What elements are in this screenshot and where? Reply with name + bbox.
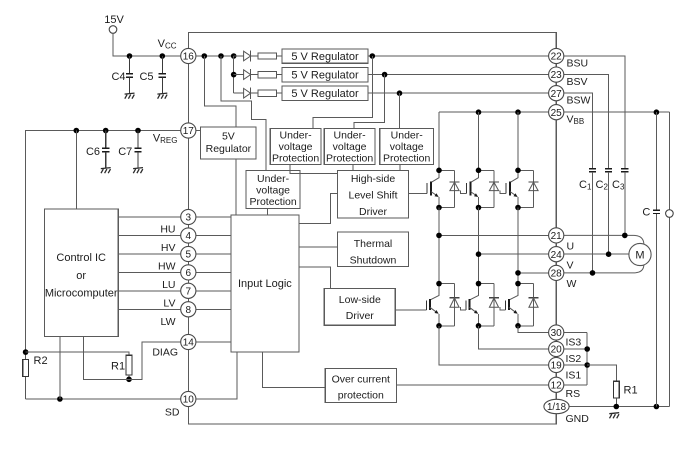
svg-text:V: V: [567, 260, 574, 272]
resistor R1 (sense): [613, 381, 637, 406]
wire pin 7 to Input Logic: [196, 290, 231, 292]
motor M: [629, 243, 651, 265]
pin 7 LV: [181, 283, 196, 298]
svg-text:DIAG: DIAG: [152, 347, 178, 359]
pin 28 W: [549, 265, 564, 280]
wire 5V Regulator to Input Logic: [235, 159, 237, 215]
transistor Q2 high-side V with diode: [467, 168, 499, 211]
svg-text:RS: RS: [566, 388, 581, 400]
svg-text:IS1: IS1: [566, 369, 582, 381]
pin 20 IS2: [549, 341, 564, 356]
wire emitter V to pin 20: [479, 326, 549, 349]
pin 3 HU: [181, 209, 196, 224]
svg-text:C4: C4: [111, 71, 125, 83]
transistor Q4 low-side U with diode: [426, 281, 459, 329]
svg-text:Microcomputer: Microcomputer: [45, 288, 118, 300]
wire U phase to pin 21: [439, 234, 549, 236]
svg-text:22: 22: [551, 52, 563, 63]
wire pin 8 to Input Logic: [196, 308, 231, 310]
5 V Regulator box 2: [282, 68, 368, 82]
wire pin 21 to motor U: [564, 235, 644, 244]
5 V Regulator box 3: [282, 86, 368, 100]
capacitor C2: [596, 169, 613, 255]
wire pin 20 stub: [564, 348, 587, 350]
svg-text:VBB: VBB: [567, 114, 585, 127]
node VBB smoothing cap branch: [654, 109, 660, 115]
pin 1/18 GND: [544, 399, 569, 413]
capacitor C (bus): [642, 112, 660, 406]
svg-text:Control IC: Control IC: [56, 252, 106, 264]
svg-text:14: 14: [183, 338, 195, 349]
wire LU control to pin 6: [118, 271, 181, 273]
wire emitter U to pin 19: [439, 326, 549, 365]
svg-text:Input Logic: Input Logic: [238, 278, 292, 290]
pin 23 BSV: [549, 67, 564, 82]
pin 25 VBB: [549, 105, 564, 120]
svg-text:Thermal: Thermal: [354, 238, 393, 250]
svg-text:IS2: IS2: [566, 353, 582, 365]
wire gate stub Q2: [461, 191, 467, 194]
Thermal Shutdown box: [337, 232, 408, 267]
wire Input Logic to Low-side driver: [299, 267, 330, 289]
node bootstrap row 2 feed: [231, 72, 237, 78]
pin 17 VREG: [181, 123, 196, 138]
svg-text:Protection: Protection: [383, 153, 430, 165]
capacitor C3: [612, 169, 628, 236]
wire pin 24 to motor V: [564, 253, 629, 255]
pin 22 BSU: [549, 48, 564, 63]
wire Input Logic to Thermal Shutdown: [299, 246, 337, 248]
svg-text:Protection: Protection: [272, 153, 319, 165]
svg-text:High-side: High-side: [351, 173, 396, 185]
svg-text:1/18: 1/18: [547, 402, 567, 413]
node IS1 junction: [584, 362, 590, 368]
pin 14 DIAG: [181, 334, 196, 349]
node C4 junction: [127, 53, 133, 59]
wire SD net: R2 bottom to pin 10: [26, 398, 181, 400]
wire pin 6 to Input Logic: [196, 271, 231, 273]
transistor Q5 low-side V with diode: [466, 281, 499, 329]
svg-text:U: U: [567, 241, 575, 253]
ground symbol at sense R1: [609, 413, 619, 419]
wire VREG to R1 pull-up: [26, 352, 129, 355]
node regulator 1 UV branch: [370, 53, 376, 59]
wire Input Logic to High-side driver: [299, 193, 337, 223]
transistor Q1 high-side U with diode: [427, 168, 459, 211]
svg-text:BSU: BSU: [567, 58, 589, 70]
svg-text:Protection: Protection: [249, 196, 296, 208]
pin 5 HW: [181, 246, 196, 261]
pin 8 LW: [181, 302, 196, 317]
wire regulator 3 output to pin 27: [368, 92, 549, 94]
svg-text:C6: C6: [86, 146, 100, 158]
Over current protection box: [325, 368, 396, 402]
svg-text:20: 20: [551, 345, 563, 356]
wire W phase to pin 28: [518, 272, 549, 274]
node under-voltage feed: [218, 53, 224, 59]
resistor R2: [23, 352, 48, 399]
pin 12 RS: [549, 377, 564, 392]
capacitor C1: [579, 169, 596, 273]
resistor R1 (DIAG pull-up): [111, 355, 132, 379]
wire HV control to pin 4: [118, 235, 181, 237]
svg-text:GND: GND: [566, 413, 590, 425]
svg-text:24: 24: [551, 250, 563, 261]
svg-text:Under-: Under-: [334, 130, 367, 142]
wire pin 10 to Input Logic bottom: [196, 352, 237, 399]
svg-text:5 V Regulator: 5 V Regulator: [291, 88, 359, 100]
svg-text:Driver: Driver: [346, 310, 375, 322]
svg-text:6: 6: [186, 268, 192, 279]
svg-text:Driver: Driver: [359, 206, 388, 218]
node SD control branch: [57, 396, 63, 402]
svg-text:17: 17: [183, 126, 195, 137]
svg-text:Under-: Under-: [391, 130, 424, 142]
svg-text:25: 25: [551, 108, 563, 119]
wire pin 28 to motor W: [564, 264, 644, 273]
node V tap: [476, 251, 482, 257]
svg-text:Regulator: Regulator: [206, 143, 252, 155]
wire pin 23 to bootstrap cap C2: [564, 75, 609, 169]
wire regulator 1 to UV protection A: [313, 56, 372, 129]
wire 15V to VCC pin 16: [113, 33, 181, 56]
wire VREG branch to Control IC top: [75, 131, 77, 210]
svg-text:Low-side: Low-side: [339, 294, 381, 306]
node IS2 junction: [584, 346, 590, 352]
capacitor C7: [118, 131, 143, 174]
wire pin 16 to diode-resistor rows: [196, 55, 234, 57]
svg-text:C5: C5: [139, 71, 153, 83]
wire pin 12 stub: [564, 384, 587, 386]
wire phase column U upper: [438, 112, 440, 170]
svg-text:C: C: [642, 207, 650, 219]
wire pin 22 to bootstrap cap C3: [564, 56, 625, 168]
IC package outline: [188, 32, 556, 424]
under-voltage protection box D: [246, 171, 300, 209]
svg-text:28: 28: [551, 269, 563, 280]
wire pin 14 to Input Logic: [196, 341, 231, 343]
svg-text:5: 5: [186, 250, 192, 261]
node W tap: [515, 270, 521, 276]
wire pin 17 to 5V Regulator box: [196, 130, 201, 132]
svg-text:Under-: Under-: [257, 173, 290, 185]
wire gate stub Q6: [500, 307, 505, 310]
wire UV D to Input Logic: [267, 209, 269, 216]
wire pin 5 to Input Logic: [196, 253, 231, 255]
Control IC box: [44, 209, 118, 336]
svg-text:LV: LV: [163, 297, 175, 309]
node C3 to U: [622, 233, 628, 239]
svg-text:C3: C3: [612, 179, 625, 192]
Low-side Driver box: [324, 289, 395, 326]
svg-text:LW: LW: [161, 316, 176, 328]
svg-text:voltage: voltage: [333, 141, 367, 153]
svg-text:27: 27: [551, 89, 563, 100]
svg-text:5 V Regulator: 5 V Regulator: [291, 70, 359, 82]
wire VBB bus terminal line: [668, 112, 670, 406]
svg-text:30: 30: [551, 328, 563, 339]
wire Control IC to SD line: [59, 336, 61, 399]
15V supply terminal: [104, 14, 124, 33]
wire VCC to UV protection D: [221, 56, 266, 171]
pin 16 VCC: [181, 48, 196, 63]
wire LW control to pin 8: [118, 308, 181, 310]
wire phase column W upper: [517, 112, 519, 170]
High-side Level Shift Driver box U1: [337, 171, 408, 219]
svg-text:C1: C1: [579, 179, 592, 192]
svg-text:SD: SD: [165, 407, 180, 419]
wire UV B to High-side driver: [352, 164, 354, 170]
node R1 to GND: [614, 404, 620, 410]
svg-text:21: 21: [551, 231, 563, 242]
wire pin 19 stub: [564, 364, 587, 366]
svg-text:19: 19: [551, 361, 563, 372]
wire column U mid: [438, 208, 440, 284]
node 5V-regulator feed: [202, 53, 208, 59]
transistor Q3 high-side W with diode: [506, 168, 538, 211]
wire feed to rows 2 and 3: [233, 56, 235, 93]
svg-text:or: or: [76, 270, 86, 282]
svg-text:HW: HW: [158, 261, 176, 273]
svg-text:W: W: [567, 278, 577, 290]
wire UV A to High-side driver: [290, 164, 337, 173]
under-voltage protection box A: [270, 129, 321, 165]
Input Logic box: [231, 215, 299, 352]
svg-text:7: 7: [186, 286, 192, 297]
svg-text:4: 4: [186, 231, 192, 242]
wire regulator 2 to UV protection B: [354, 75, 385, 129]
pin 19 IS1: [549, 357, 564, 372]
wire gate stub Q3: [500, 191, 506, 194]
node bootstrap row 1 feed: [231, 53, 237, 59]
wire GND rail right: [569, 406, 669, 408]
wire V phase to pin 24: [479, 253, 549, 255]
pin 6 LU: [181, 265, 196, 280]
svg-text:IS3: IS3: [566, 336, 582, 348]
pin 4 HV: [181, 228, 196, 243]
wire Over current protection to pin 12: [396, 384, 548, 386]
wire gate stub Q5: [461, 307, 466, 310]
node R1 bottom (DIAG): [126, 377, 132, 383]
svg-text:C2: C2: [596, 179, 609, 192]
diode and resistor row 1: [234, 50, 282, 61]
wire regulator 3 to UV protection C: [399, 93, 401, 128]
node U tap: [436, 233, 442, 239]
svg-text:HU: HU: [160, 224, 175, 236]
wire pin 30 stub: [564, 332, 587, 334]
svg-text:voltage: voltage: [390, 141, 424, 153]
wire column W mid: [517, 208, 519, 284]
diode and resistor row 3: [234, 88, 282, 99]
node C7 junction: [135, 128, 141, 134]
svg-text:C7: C7: [118, 146, 132, 158]
wire High-side driver output to gate U: [408, 193, 427, 195]
node control-ic supply branch: [74, 128, 80, 134]
transistor Q6 low-side W with diode: [505, 281, 538, 329]
svg-text:8: 8: [186, 305, 192, 316]
wire pin 27 to bootstrap cap C1: [564, 93, 593, 168]
svg-text:LU: LU: [162, 279, 175, 291]
svg-text:Over current: Over current: [332, 374, 390, 386]
svg-text:protection: protection: [338, 389, 384, 401]
svg-text:VCC: VCC: [158, 38, 177, 51]
svg-text:5V: 5V: [222, 130, 235, 142]
pin 21 U: [549, 228, 564, 243]
svg-text:R2: R2: [34, 355, 48, 367]
svg-text:Shutdown: Shutdown: [350, 255, 397, 267]
wire phase column V upper: [478, 112, 480, 170]
svg-text:Under-: Under-: [280, 130, 313, 142]
capacitor C5: [139, 56, 167, 99]
node R2 top (VREG): [23, 349, 29, 355]
wire VBB rail: [439, 111, 669, 113]
node VBB column V: [476, 109, 482, 115]
svg-text:Protection: Protection: [326, 153, 373, 165]
wire Input Logic to Over current protection: [262, 352, 325, 387]
wire VREG rail from pin 17 to left column: [26, 131, 181, 353]
svg-text:23: 23: [551, 70, 563, 81]
capacitor C6: [86, 131, 111, 174]
wire DIAG net: pin 14 to R1 and Control IC: [84, 336, 181, 379]
pin 30 IS3: [549, 325, 564, 340]
node regulator 3 UV branch: [397, 90, 403, 96]
svg-text:VREG: VREG: [153, 133, 178, 146]
wire pin 4 to Input Logic: [196, 235, 231, 237]
diode and resistor row 2: [234, 69, 282, 80]
terminal bus voltage: [666, 210, 674, 218]
svg-text:16: 16: [183, 52, 195, 63]
node VBB column W: [515, 109, 521, 115]
svg-text:HV: HV: [161, 242, 176, 254]
svg-text:R1: R1: [624, 385, 638, 397]
svg-text:5 V Regulator: 5 V Regulator: [291, 51, 359, 63]
wire regulator 1 output to pin 22: [368, 55, 549, 57]
node C1 to W: [590, 270, 596, 276]
under-voltage protection box C: [380, 129, 434, 165]
capacitor C4: [111, 56, 134, 99]
node regulator 2 UV branch: [382, 72, 388, 78]
node C2 to V: [606, 251, 612, 257]
wire LV control to pin 7: [118, 290, 181, 292]
wire column V mid: [478, 208, 480, 284]
wire regulator 2 output to pin 23: [368, 74, 549, 76]
wire IS sense common: [586, 333, 588, 385]
svg-text:BSV: BSV: [567, 76, 588, 88]
svg-text:R1: R1: [111, 361, 125, 373]
svg-text:voltage: voltage: [256, 184, 290, 196]
svg-text:10: 10: [183, 395, 195, 406]
node C5 junction: [160, 53, 166, 59]
wire VCC to 5V Regulator box: [204, 56, 236, 127]
svg-text:Level Shift: Level Shift: [348, 190, 397, 202]
svg-text:voltage: voltage: [279, 141, 313, 153]
pin 10 SD: [181, 391, 196, 406]
wire HU control to pin 3: [118, 216, 181, 218]
wire pin 3 to Input Logic: [196, 216, 231, 218]
pin 27 BSW: [549, 86, 564, 101]
wire emitter W to pin 30: [518, 326, 549, 333]
wire sense to R1: [587, 365, 616, 381]
svg-text:12: 12: [551, 380, 563, 391]
wire UV C to High-side driver: [399, 164, 401, 170]
node C6 junction: [103, 128, 109, 134]
pin 24 V: [549, 247, 564, 262]
svg-text:3: 3: [186, 213, 192, 224]
wire HW control to pin 5: [118, 253, 181, 255]
under-voltage protection box B: [324, 129, 375, 165]
svg-text:BSW: BSW: [567, 95, 591, 107]
wire Low-side driver output to gate U: [395, 309, 426, 311]
5V Regulator box (VREG): [201, 127, 256, 159]
node cap C to GND: [654, 404, 660, 410]
svg-text:15V: 15V: [104, 14, 124, 26]
svg-text:M: M: [635, 250, 644, 262]
5 V Regulator box 1: [282, 49, 368, 63]
